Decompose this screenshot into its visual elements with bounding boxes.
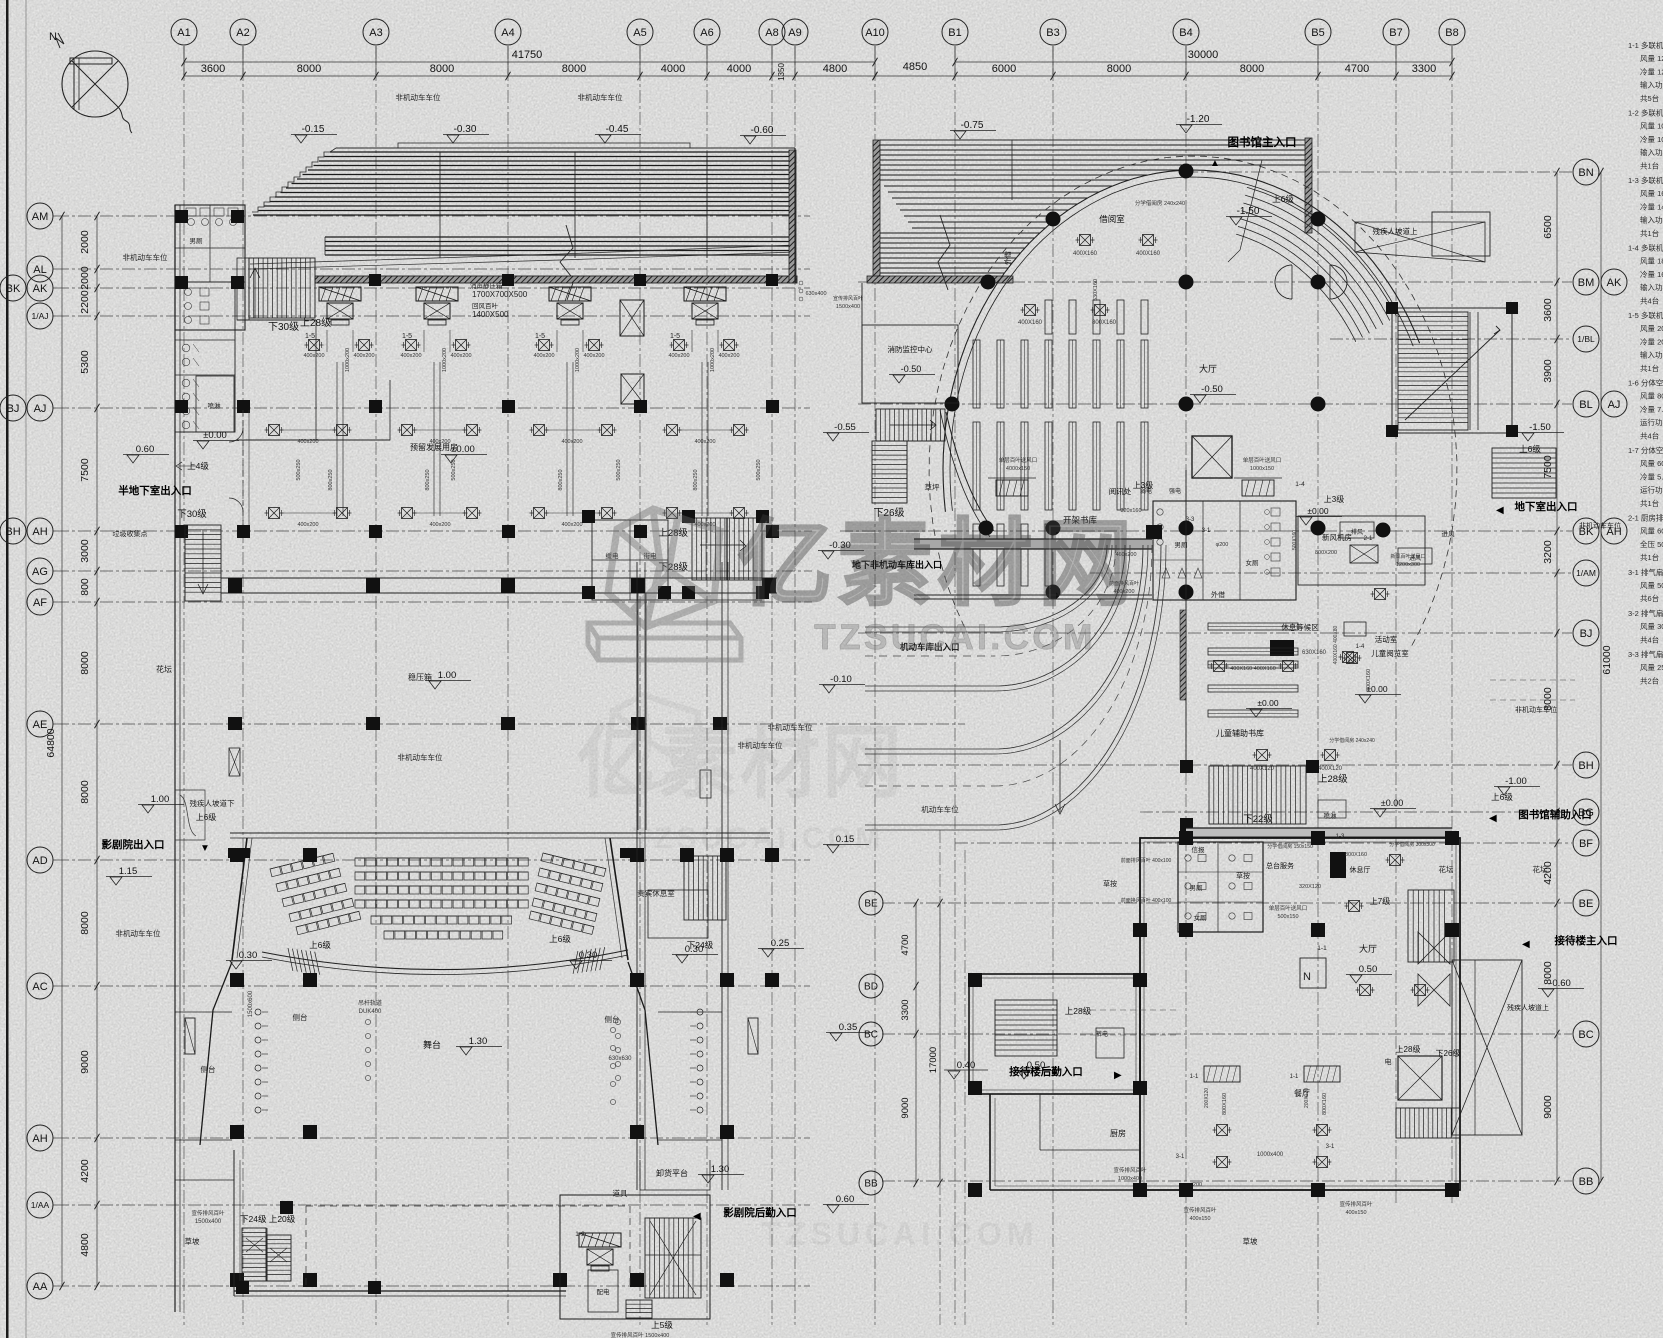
svg-text:500X160: 500X160: [1292, 530, 1298, 550]
svg-text:800X160: 800X160: [1366, 669, 1372, 691]
svg-text:3000: 3000: [79, 539, 91, 563]
svg-text:上6级: 上6级: [196, 812, 216, 822]
svg-text:9000: 9000: [79, 1050, 91, 1074]
svg-text:N: N: [49, 31, 57, 43]
svg-text:AF: AF: [33, 597, 47, 609]
svg-text:3600: 3600: [201, 63, 225, 75]
svg-text:大厅: 大厅: [1359, 943, 1377, 954]
svg-text:1-6 分体空调器: 1-6 分体空调器: [1628, 378, 1663, 388]
svg-text:B5: B5: [1311, 27, 1324, 39]
svg-text:◀: ◀: [1496, 505, 1504, 516]
elevator shafts center: [620, 300, 644, 336]
svg-text:±0.00: ±0.00: [451, 444, 475, 455]
svg-text:输入功率 0.21kW: 输入功率 0.21kW: [1640, 350, 1663, 360]
svg-text:垃圾收集点: 垃圾收集点: [113, 529, 148, 538]
axis bubbles top: [171, 19, 197, 45]
AHU row: [319, 287, 361, 301]
svg-text:0.60: 0.60: [836, 1194, 855, 1205]
svg-text:AA: AA: [33, 1281, 48, 1293]
svg-text:上6级: 上6级: [1272, 194, 1294, 204]
svg-text:2000: 2000: [79, 266, 91, 290]
svg-text:上7级: 上7级: [1370, 896, 1390, 906]
svg-text:分学借阅房 300x300: 分学借阅房 300x300: [1389, 841, 1435, 848]
svg-text:500x150: 500x150: [1277, 914, 1298, 920]
svg-text:400X120: 400X120: [1318, 766, 1343, 772]
svg-text:8000: 8000: [79, 911, 91, 935]
svg-text:上3级: 上3级: [1324, 494, 1344, 504]
svg-text:分学借阅房 150x150: 分学借阅房 150x150: [1267, 843, 1313, 850]
svg-text:外借: 外借: [1211, 590, 1225, 599]
orchestra dashed outline: [306, 1206, 630, 1288]
svg-text:400x150: 400x150: [1189, 1216, 1210, 1222]
svg-text:非机动车车位: 非机动车车位: [116, 928, 161, 938]
svg-text:冷量 16.0kW: 冷量 16.0kW: [1640, 269, 1663, 279]
svg-text:4000: 4000: [727, 63, 751, 75]
svg-text:BD: BD: [864, 982, 878, 993]
driveway quarter-ellipse curves: [995, 545, 1107, 627]
svg-text:上6级: 上6级: [1491, 792, 1513, 802]
library ramp band top: [880, 139, 1310, 141]
svg-text:半地下室出入口: 半地下室出入口: [118, 484, 192, 497]
svg-text:400x200: 400x200: [561, 522, 582, 528]
svg-text:4000x150: 4000x150: [1006, 466, 1030, 472]
svg-text:A4: A4: [501, 27, 514, 39]
svg-text:风量 1000m3/h: 风量 1000m3/h: [1640, 122, 1663, 131]
amphitheater step arcs top-right: [1247, 187, 1397, 316]
svg-text:5300: 5300: [79, 350, 91, 374]
garage diffuser grid rows: [269, 425, 280, 436]
party wall hatched strip: [315, 276, 797, 283]
svg-text:1-4: 1-4: [1295, 481, 1305, 488]
svg-text:AH: AH: [32, 526, 47, 538]
watermark group: [588, 509, 1138, 660]
svg-text:单层百叶送风口: 单层百叶送风口: [999, 456, 1038, 464]
svg-text:TZSUCAI.COM: TZSUCAI.COM: [761, 1216, 1038, 1252]
svg-text:3300: 3300: [900, 999, 911, 1020]
svg-text:非机动车车位: 非机动车车位: [123, 252, 168, 262]
svg-text:花坛: 花坛: [1439, 864, 1455, 874]
svg-text:排风: 排风: [1351, 528, 1363, 536]
right dim chain: [1556, 172, 1558, 1181]
svg-text:BK: BK: [6, 283, 21, 295]
svg-text:输入功率 0.10kW: 输入功率 0.10kW: [1640, 147, 1663, 157]
svg-text:3-3 排气扇: 3-3 排气扇: [1628, 649, 1663, 659]
svg-text:3-1: 3-1: [1176, 1154, 1185, 1160]
svg-text:A8: A8: [765, 27, 778, 39]
proscenium arcs: [262, 950, 628, 970]
svg-text:8000: 8000: [297, 63, 321, 75]
toilet block lower (showers): [175, 282, 235, 432]
svg-text:输入功率 0.18kW: 输入功率 0.18kW: [1640, 282, 1663, 292]
svg-text:-0.50: -0.50: [1201, 384, 1223, 395]
svg-text:800x250: 800x250: [328, 469, 334, 490]
svg-text:前面排风百叶 400x100: 前面排风百叶 400x100: [1121, 857, 1172, 864]
svg-text:冷量 20.0kW: 冷量 20.0kW: [1640, 336, 1663, 346]
svg-text:7500: 7500: [79, 458, 91, 482]
svg-text:冷量 14.0kW: 冷量 14.0kW: [1640, 201, 1663, 211]
svg-text:吊杆轨道: 吊杆轨道: [358, 999, 382, 1007]
library ellipse arcs: [929, 156, 1457, 650]
svg-text:BL: BL: [1579, 399, 1592, 411]
svg-text:1500x400: 1500x400: [195, 1219, 222, 1225]
dining AHUs: [1204, 1066, 1240, 1082]
svg-text:下26级: 下26级: [1436, 1048, 1461, 1058]
svg-text:草按: 草按: [1236, 871, 1250, 880]
svg-text:±0.00: ±0.00: [1307, 506, 1328, 516]
svg-text:风量 300m3/h: 风量 300m3/h: [1640, 622, 1663, 631]
ramp right: [1452, 960, 1522, 1135]
svg-text:共1台: 共1台: [1640, 552, 1659, 562]
svg-text:1-2: 1-2: [575, 1231, 585, 1238]
left building walls: [174, 205, 176, 1312]
svg-text:非机动车车位: 非机动车车位: [396, 92, 441, 102]
svg-text:B3: B3: [1046, 27, 1059, 39]
svg-text:4000: 4000: [661, 63, 685, 75]
svg-text:共5台: 共5台: [1640, 93, 1659, 103]
svg-text:0.30: 0.30: [239, 950, 258, 961]
svg-text:500x250: 500x250: [756, 459, 762, 480]
columns rows garage: [237, 400, 250, 413]
svg-text:男厕: 男厕: [190, 237, 204, 245]
svg-text:风量 1200m3/h: 风量 1200m3/h: [1640, 54, 1663, 63]
svg-text:亿素材网: 亿素材网: [576, 718, 904, 807]
stair bottom-left: [242, 1228, 266, 1281]
svg-text:冷量 10.0kW: 冷量 10.0kW: [1640, 134, 1663, 144]
vip stair: [684, 856, 726, 920]
svg-text:±0.00: ±0.00: [203, 430, 227, 441]
svg-text:8000: 8000: [79, 780, 91, 804]
svg-text:宣传排风百叶: 宣传排风百叶: [1183, 1206, 1217, 1214]
svg-text:400x200: 400x200: [297, 522, 318, 528]
bowtie doors: [1418, 932, 1450, 964]
north compass: [62, 51, 128, 117]
svg-text:草坡: 草坡: [1243, 1236, 1259, 1246]
reception columns: [968, 973, 982, 987]
svg-text:卸货平台: 卸货平台: [656, 1168, 688, 1178]
side stage walls: [200, 962, 232, 1145]
svg-text:B4: B4: [1179, 27, 1192, 39]
svg-text:30000: 30000: [1188, 49, 1219, 61]
svg-text:8000: 8000: [562, 63, 586, 75]
svg-text:4700: 4700: [1345, 63, 1369, 75]
svg-text:风量 6000m3/h: 风量 6000m3/h: [1640, 527, 1663, 536]
svg-text:8000: 8000: [1107, 63, 1131, 75]
entrance steps right: [1408, 890, 1454, 962]
svg-text:输入功率 0.12kW: 输入功率 0.12kW: [1640, 80, 1663, 90]
svg-text:A2: A2: [236, 27, 249, 39]
svg-text:风量 1800m3/h: 风量 1800m3/h: [1640, 257, 1663, 266]
wall-mounted units stage sides: [185, 1018, 195, 1054]
svg-text:3-3: 3-3: [1186, 517, 1195, 523]
svg-text:2-1 厨房排风机: 2-1 厨房排风机: [1628, 513, 1663, 523]
svg-text:-0.60: -0.60: [751, 125, 774, 136]
svg-text:女厕: 女厕: [1194, 913, 1208, 922]
svg-text:3200: 3200: [1542, 540, 1554, 564]
svg-text:9000: 9000: [1542, 1095, 1554, 1119]
svg-text:A1: A1: [177, 27, 190, 39]
svg-text:320X120: 320X120: [1299, 884, 1321, 890]
svg-text:下24级 上20级: 下24级 上20级: [240, 1214, 296, 1224]
svg-text:400x200: 400x200: [450, 353, 471, 359]
svg-text:休息等候区: 休息等候区: [1281, 622, 1319, 632]
svg-text:非机动车车位: 非机动车车位: [1579, 521, 1621, 530]
svg-text:500x250: 500x250: [616, 459, 622, 480]
svg-text:BF: BF: [1579, 838, 1593, 850]
svg-text:上6级: 上6级: [1519, 444, 1541, 454]
svg-text:风量 2000m3/h: 风量 2000m3/h: [1640, 324, 1663, 333]
svg-text:进风: 进风: [1409, 554, 1421, 562]
svg-text:AK: AK: [33, 283, 48, 295]
svg-text:风量 1600m3/h: 风量 1600m3/h: [1640, 189, 1663, 198]
svg-text:200X120: 200X120: [1304, 1088, 1310, 1108]
svg-text:运行功率 0.8kW: 运行功率 0.8kW: [1640, 417, 1663, 427]
svg-text:女厕: 女厕: [1246, 558, 1260, 567]
svg-text:消声静压箱: 消声静压箱: [470, 281, 503, 290]
toilets top: [1178, 842, 1263, 932]
svg-text:400x200: 400x200: [668, 353, 689, 359]
interior bubble chain: [859, 891, 883, 915]
svg-text:41750: 41750: [512, 49, 543, 61]
air intake boxes: [1340, 522, 1374, 538]
svg-text:接待楼后勤入口: 接待楼后勤入口: [1009, 1065, 1083, 1078]
right corridor of theater: [636, 860, 638, 1190]
svg-text:非机动车车位: 非机动车车位: [1515, 705, 1557, 714]
svg-text:借阅室: 借阅室: [1099, 214, 1125, 224]
svg-text:上6级: 上6级: [549, 934, 571, 944]
svg-text:AJ: AJ: [34, 403, 47, 415]
theater seats left bank: [270, 853, 335, 876]
svg-text:侧台: 侧台: [201, 1064, 216, 1074]
svg-text:400x200: 400x200: [561, 439, 582, 445]
svg-text:◀: ◀: [1489, 813, 1497, 824]
svg-text:6500: 6500: [1542, 215, 1554, 239]
svg-text:分学借阅房 240x240: 分学借阅房 240x240: [1329, 737, 1375, 744]
svg-text:2000: 2000: [79, 230, 91, 254]
svg-text:1.00: 1.00: [438, 670, 457, 681]
svg-text:下30级: 下30级: [268, 321, 299, 333]
svg-text:1000x200: 1000x200: [575, 348, 581, 372]
svg-text:630X160: 630X160: [1302, 650, 1327, 656]
svg-text:◀: ◀: [1522, 939, 1530, 950]
svg-text:新风机房: 新风机房: [1322, 532, 1352, 542]
top dimension lines: [184, 61, 875, 63]
svg-text:BB: BB: [864, 1179, 878, 1190]
bottom center rooms: [560, 1195, 710, 1319]
svg-text:活动室: 活动室: [1375, 634, 1398, 644]
svg-text:1-2: 1-2: [1347, 659, 1357, 666]
svg-text:草坡: 草坡: [185, 1236, 200, 1246]
svg-text:接待楼主入口: 接待楼主入口: [1555, 934, 1618, 947]
svg-text:图书馆主入口: 图书馆主入口: [1228, 135, 1297, 149]
bottom rooms left building: [234, 1290, 566, 1292]
svg-text:宣传排风百叶: 宣传排风百叶: [833, 295, 863, 302]
curtain dot columns: [255, 1009, 261, 1015]
svg-text:1.15: 1.15: [119, 866, 138, 877]
svg-text:AD: AD: [32, 855, 47, 867]
svg-text:共4台: 共4台: [1640, 295, 1659, 305]
svg-text:上28级: 上28级: [300, 317, 331, 329]
svg-text:AH: AH: [32, 1133, 47, 1145]
svg-text:1-5: 1-5: [402, 333, 412, 340]
svg-text:0.60: 0.60: [136, 444, 155, 455]
svg-text:-0.30: -0.30: [454, 124, 477, 135]
garage duct risers: [336, 362, 338, 516]
svg-text:单层百叶送风口: 单层百叶送风口: [1269, 904, 1308, 912]
svg-text:A10: A10: [865, 27, 885, 39]
svg-text:DUK400: DUK400: [359, 1009, 382, 1015]
svg-text:8000: 8000: [430, 63, 454, 75]
svg-text:800X160: 800X160: [1092, 320, 1117, 326]
library inner wall: [1185, 470, 1187, 766]
arc end steps: [285, 948, 323, 975]
svg-text:400x200: 400x200: [297, 439, 318, 445]
svg-text:BM: BM: [1578, 277, 1595, 289]
svg-text:A3: A3: [369, 27, 382, 39]
svg-text:信报: 信报: [1192, 845, 1206, 854]
svg-text:17000: 17000: [928, 1047, 939, 1073]
svg-text:1500x600: 1500x600: [248, 990, 254, 1017]
svg-text:-1.00: -1.00: [1505, 776, 1527, 787]
svg-text:A5: A5: [633, 27, 646, 39]
svg-text:宣传排风百叶: 宣传排风百叶: [1113, 1166, 1147, 1174]
svg-text:BJ: BJ: [7, 403, 20, 415]
svg-text:机动车车位: 机动车车位: [921, 804, 959, 814]
svg-text:0.40: 0.40: [957, 1060, 976, 1071]
svg-text:64800: 64800: [45, 728, 57, 757]
svg-text:冷量 12.5kW: 冷量 12.5kW: [1640, 66, 1663, 76]
svg-text:BE: BE: [1579, 898, 1594, 910]
revolving doors: [1275, 265, 1292, 299]
theater seats right bank: [541, 853, 606, 876]
svg-text:共4台: 共4台: [1640, 634, 1659, 644]
svg-text:B7: B7: [1389, 27, 1402, 39]
svg-text:草坪: 草坪: [925, 482, 940, 492]
svg-text:儿童阅览室: 儿童阅览室: [1371, 648, 1409, 658]
svg-text:共2台: 共2台: [1640, 675, 1659, 685]
svg-text:400x150: 400x150: [1345, 1210, 1366, 1216]
svg-text:强电: 强电: [1169, 487, 1181, 495]
svg-text:1-3 多联机室内机: 1-3 多联机室内机: [1628, 175, 1663, 185]
svg-text:BH: BH: [1578, 760, 1593, 772]
stair top-left (下30 上28): [249, 258, 315, 318]
svg-text:1000x400: 1000x400: [1118, 1176, 1142, 1182]
svg-text:1500x400: 1500x400: [836, 304, 860, 310]
svg-text:共1台: 共1台: [1640, 363, 1659, 373]
svg-text:4200: 4200: [79, 1159, 91, 1183]
svg-text:男厕: 男厕: [1190, 884, 1204, 892]
svg-text:800X160: 800X160: [1345, 852, 1367, 858]
svg-text:400X160: 400X160: [1018, 320, 1043, 326]
svg-text:1000x200: 1000x200: [345, 348, 351, 372]
svg-text:▶: ▶: [1114, 1070, 1122, 1081]
svg-text:8000: 8000: [1240, 63, 1264, 75]
svg-text:3300: 3300: [1412, 63, 1436, 75]
svg-text:侧台: 侧台: [605, 1014, 620, 1024]
svg-text:舞台: 舞台: [423, 1039, 441, 1050]
svg-text:1700X700X500: 1700X700X500: [472, 290, 528, 299]
svg-text:1-1: 1-1: [1317, 945, 1327, 952]
svg-text:回风百叶: 回风百叶: [472, 301, 499, 310]
svg-text:1-5 多联机室内机: 1-5 多联机室内机: [1628, 310, 1663, 320]
svg-text:风量 800m3/h: 风量 800m3/h: [1640, 392, 1663, 401]
svg-text:BE: BE: [864, 899, 878, 910]
service core between buildings: [592, 520, 668, 600]
library elevator: [1192, 436, 1232, 478]
svg-text:总台服务: 总台服务: [1266, 861, 1294, 870]
svg-text:7500: 7500: [1542, 455, 1554, 479]
svg-text:BN: BN: [1578, 167, 1593, 179]
svg-text:1350: 1350: [777, 63, 786, 81]
svg-text:1000x400: 1000x400: [1257, 1152, 1284, 1158]
svg-text:800: 800: [79, 578, 91, 596]
svg-text:630x630: 630x630: [608, 1056, 632, 1062]
svg-text:4800: 4800: [79, 1233, 91, 1257]
svg-text:全压 500Pa: 全压 500Pa: [1640, 539, 1663, 549]
svg-text:地下室出入口: 地下室出入口: [1515, 500, 1578, 513]
left dim chain: [96, 216, 98, 1286]
svg-text:1200x300: 1200x300: [1396, 562, 1420, 568]
svg-text:喷淋: 喷淋: [1324, 811, 1338, 820]
sheet border left edge: [6, 0, 9, 1338]
svg-text:-1.50: -1.50: [1529, 422, 1551, 433]
svg-text:1-5: 1-5: [305, 333, 315, 340]
svg-text:外借: 外借: [1003, 251, 1012, 265]
svg-text:0.35: 0.35: [839, 1022, 858, 1033]
svg-text:残疾人坡道上: 残疾人坡道上: [1507, 1003, 1549, 1012]
svg-text:1-1 多联机室内机: 1-1 多联机室内机: [1628, 40, 1663, 50]
svg-text:儿童辅助书库: 儿童辅助书库: [1216, 728, 1264, 738]
svg-text:A6: A6: [700, 27, 713, 39]
library bottom entrance: [1186, 828, 1452, 837]
svg-text:400x200: 400x200: [303, 353, 324, 359]
svg-text:稳压箱: 稳压箱: [408, 672, 432, 682]
svg-text:400X160 400X80: 400X160 400X80: [1333, 625, 1339, 664]
svg-text:宣传排风百叶: 宣传排风百叶: [1339, 1200, 1373, 1208]
svg-text:400X160: 400X160: [1136, 251, 1161, 257]
axis bubbles right: [1573, 159, 1599, 185]
svg-text:休息厅: 休息厅: [1350, 865, 1371, 874]
svg-text:AJ: AJ: [1608, 399, 1621, 411]
svg-text:电: 电: [1385, 1057, 1392, 1066]
library black column dots: [1046, 212, 1060, 226]
svg-text:消防监控中心: 消防监控中心: [888, 344, 933, 354]
svg-text:400X120: 400X120: [1250, 766, 1275, 772]
axis bubbles left: [27, 203, 53, 229]
svg-text:上28级: 上28级: [1396, 1044, 1421, 1054]
svg-text:分学借阅房 240x240: 分学借阅房 240x240: [1135, 199, 1185, 207]
svg-text:B8: B8: [1445, 27, 1458, 39]
svg-text:下24级: 下24级: [687, 940, 714, 950]
svg-text:宣传排风百叶 1500x400: 宣传排风百叶 1500x400: [611, 1331, 670, 1338]
svg-text:3900: 3900: [1542, 359, 1554, 383]
svg-text:800X160: 800X160: [1322, 1093, 1328, 1115]
svg-text:400x200: 400x200: [353, 353, 374, 359]
svg-text:400x200: 400x200: [533, 353, 554, 359]
lower garage wall band: [221, 577, 777, 579]
svg-text:1000x200: 1000x200: [442, 348, 448, 372]
svg-text:-0.50: -0.50: [901, 364, 922, 374]
svg-text:AL: AL: [33, 264, 46, 276]
left building: ramp band top: [330, 151, 795, 153]
svg-text:1-5: 1-5: [670, 333, 680, 340]
svg-text:2-1: 2-1: [1364, 536, 1373, 542]
svg-text:1-1: 1-1: [1190, 1074, 1199, 1080]
svg-text:φ200: φ200: [1216, 542, 1229, 548]
svg-text:1.30: 1.30: [711, 1164, 730, 1175]
svg-text:±0.00: ±0.00: [1257, 698, 1278, 708]
grid: horizontal axis lines (right): [1185, 171, 1572, 173]
svg-text:共1台: 共1台: [1640, 498, 1659, 508]
